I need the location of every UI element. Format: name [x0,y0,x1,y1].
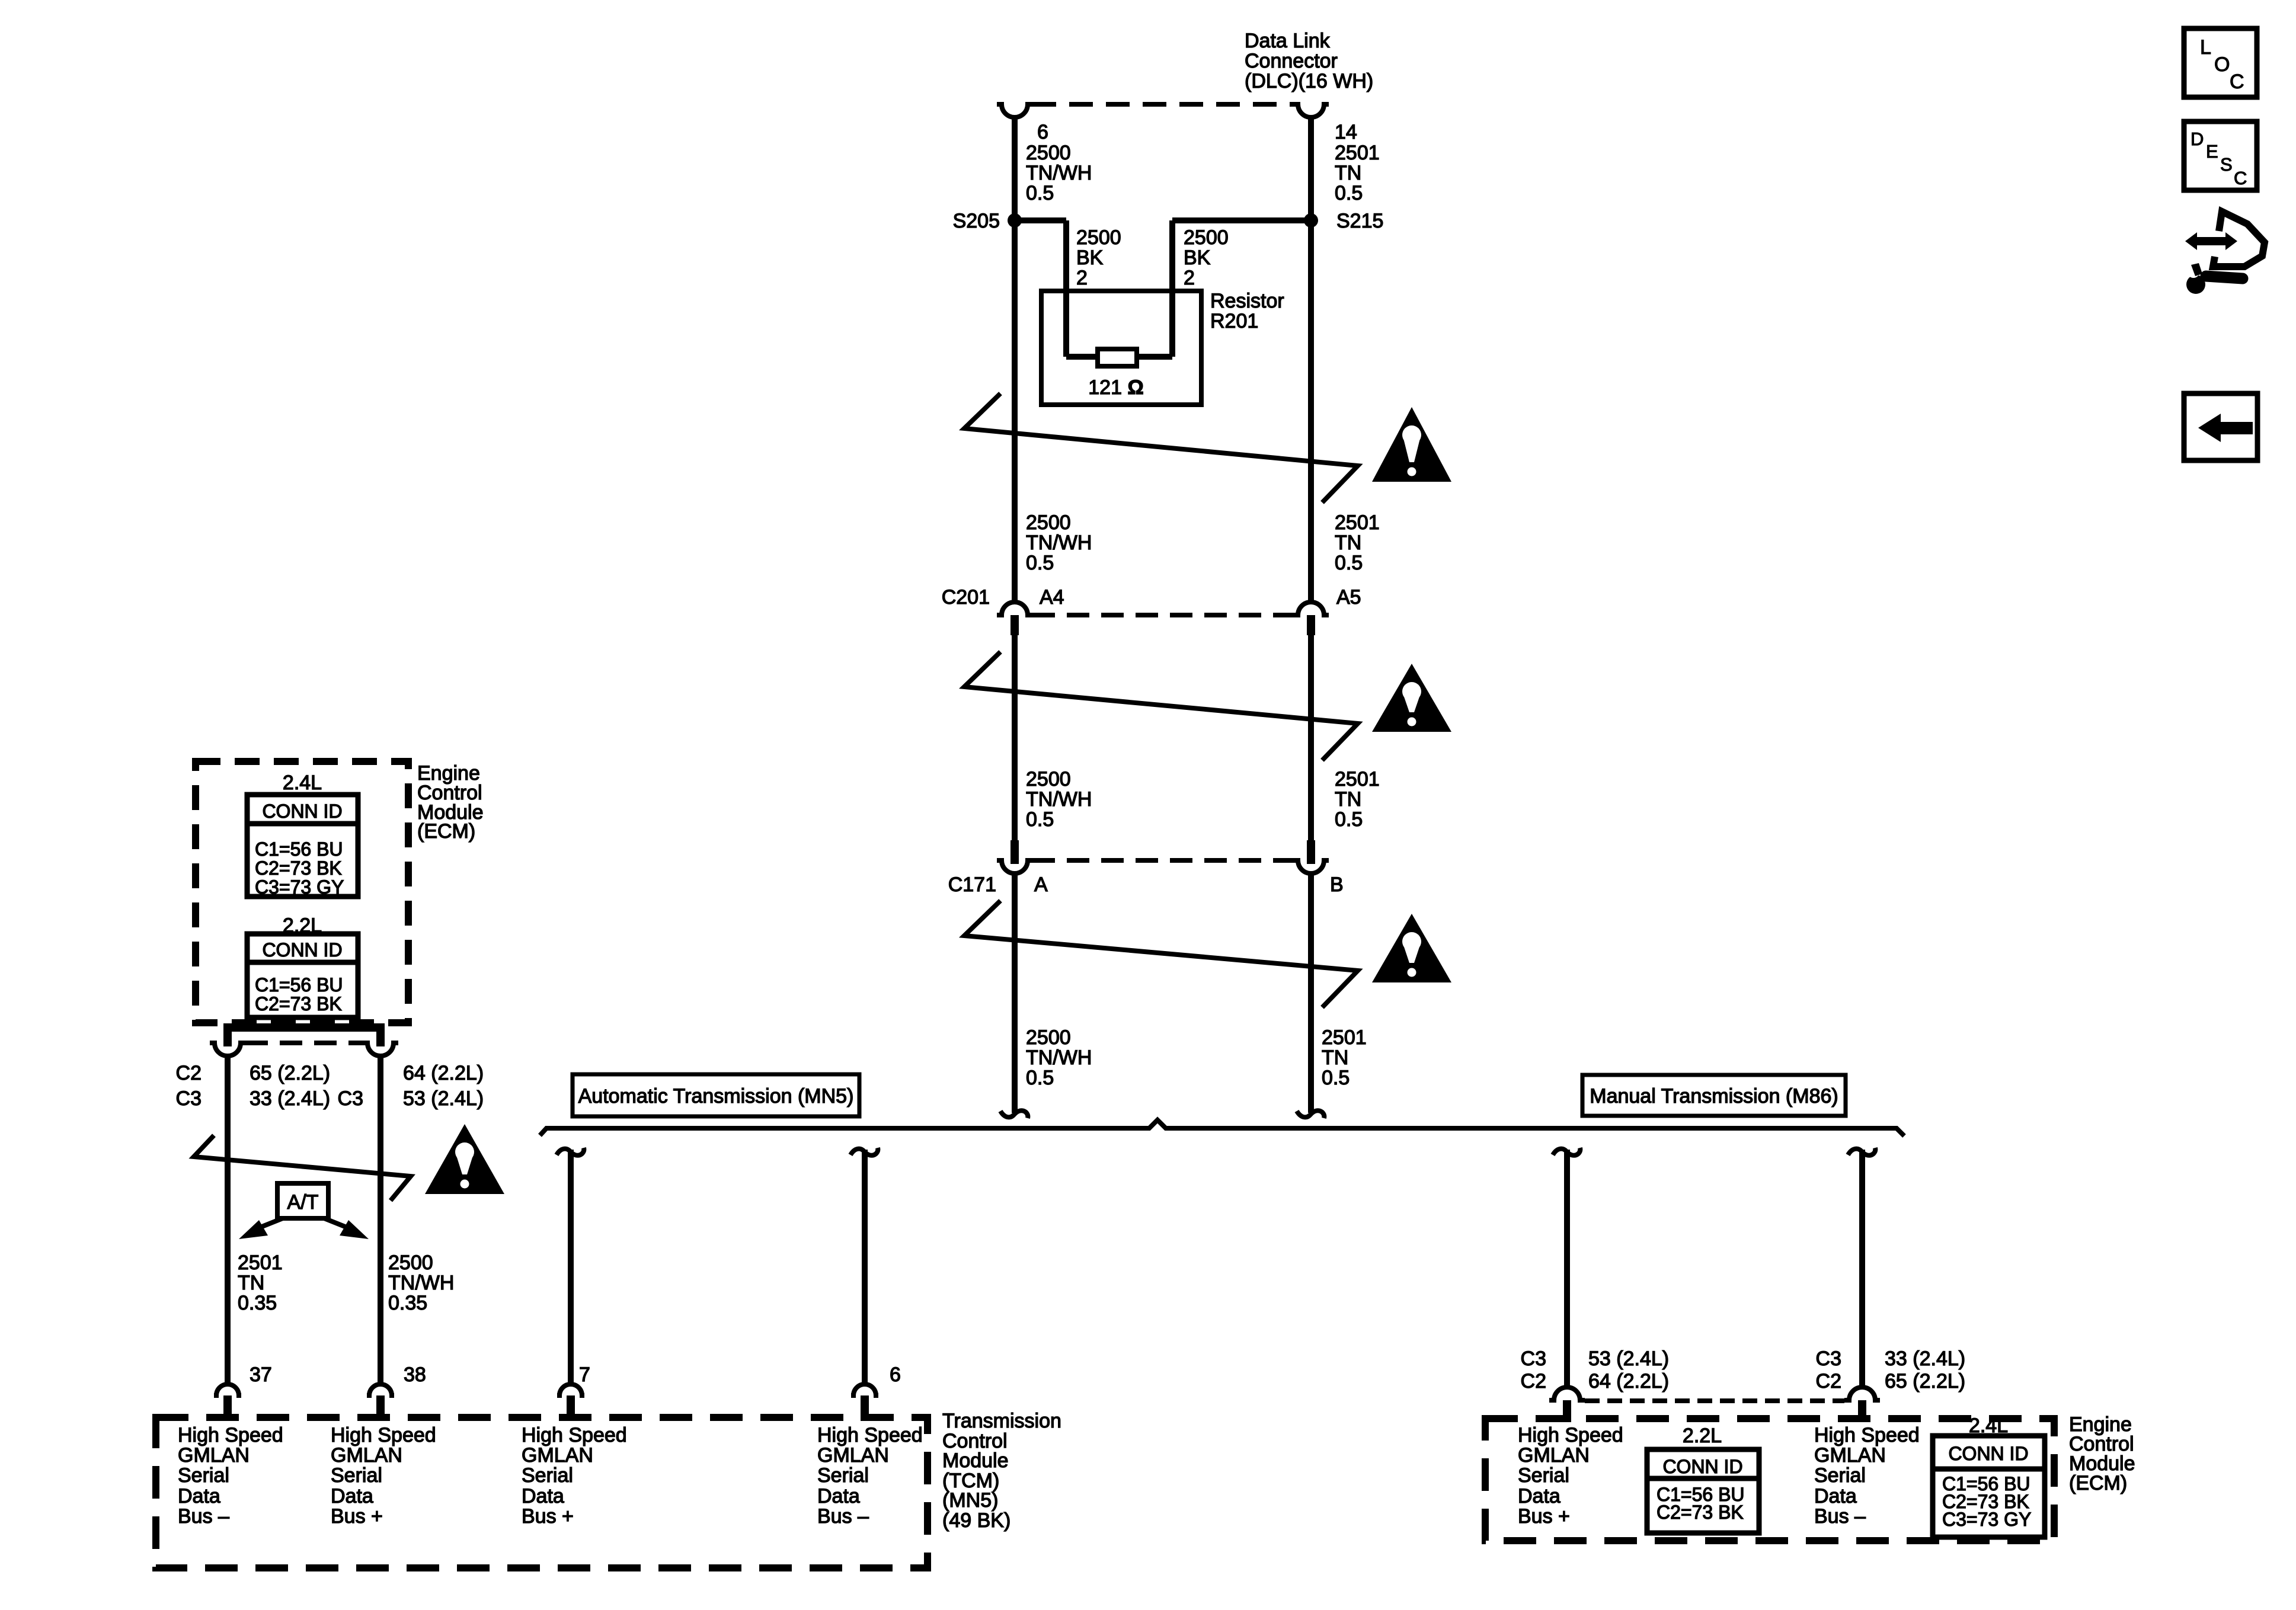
svg-text:64 (2.2L): 64 (2.2L) [1588,1370,1669,1393]
svg-text:C1=56 BU: C1=56 BU [255,974,343,996]
svg-text:Serial: Serial [1518,1464,1569,1487]
wire end squiggle right DLC wire [1297,1110,1324,1118]
svg-text:A: A [1034,873,1048,896]
wire staple below left ECM [228,1028,380,1046]
svg-text:S205: S205 [953,210,1000,232]
off-page zigzag 2 [964,652,1358,760]
svg-text:33 (2.4L): 33 (2.4L) [250,1087,330,1110]
svg-text:0.5: 0.5 [1322,1067,1350,1089]
svg-text:0.5: 0.5 [1026,552,1054,574]
svg-text:Bus +: Bus + [331,1505,383,1528]
svg-text:CONN ID: CONN ID [262,939,342,961]
svg-text:Bus –: Bus – [1814,1505,1866,1528]
connector right ECM pin right (dome) [1844,1387,1880,1400]
wire 2501 TN segment S215 to C201 [1308,220,1314,602]
connector C171 dashed body line [1032,858,1293,863]
svg-text:C: C [2230,71,2244,93]
connector TCM pin 6 (dome) [851,1384,878,1395]
svg-text:0.5: 0.5 [1335,182,1363,204]
svg-text:C2: C2 [1816,1370,1841,1393]
svg-text:37: 37 [250,1363,272,1386]
svg-text:BK: BK [1184,247,1211,269]
svg-text:TN/WH: TN/WH [1026,1046,1092,1069]
icon back arrow box [2184,393,2257,460]
connector left ECM pin C2/C3 (cup) [210,1043,245,1056]
wire squiggle M86 right [1848,1148,1875,1156]
svg-text:GMLAN: GMLAN [1518,1444,1590,1467]
svg-text:38: 38 [404,1363,426,1386]
svg-text:Automatic Transmission (MN5): Automatic Transmission (MN5) [578,1085,854,1108]
svg-text:7: 7 [579,1363,590,1386]
svg-text:Serial: Serial [331,1464,382,1487]
svg-text:0.35: 0.35 [388,1292,427,1314]
svg-text:121 Ω: 121 Ω [1088,376,1143,399]
icon DESC box [2184,121,2257,190]
svg-text:C3: C3 [176,1087,202,1110]
svg-text:TN: TN [1335,162,1361,184]
bus option brace line [540,1120,1904,1136]
svg-text:2501: 2501 [1335,142,1380,164]
connector TCM pin 37 (dome) [214,1384,241,1395]
svg-text:Transmission: Transmission [942,1410,1061,1432]
connector C201 pin A5 (dome) [1293,602,1329,615]
svg-text:C3=73 GY: C3=73 GY [255,876,344,898]
svg-text:TN/WH: TN/WH [388,1272,454,1294]
svg-text:Data: Data [1518,1485,1560,1507]
connector DLC pin 14 (female cup) [1293,104,1329,117]
svg-text:(49 BK): (49 BK) [942,1509,1011,1532]
svg-text:A4: A4 [1040,586,1064,609]
svg-text:C171: C171 [948,873,996,896]
svg-text:TN: TN [1322,1046,1348,1069]
label box Automatic Transmission (MN5) [573,1074,859,1116]
module box Engine Control Module ECM (right, dashed) [1485,1419,2054,1541]
svg-text:GMLAN: GMLAN [331,1444,402,1467]
wire squiggle M86 left [1553,1148,1580,1156]
icon double arrow [2185,232,2237,250]
wire M86 left [1564,1150,1570,1387]
table CONN ID 2.4L (left ECM) [247,795,358,897]
svg-text:0.5: 0.5 [1026,1067,1054,1089]
svg-text:0.5: 0.5 [1026,182,1054,204]
connector C201 pin A4 (dome) [997,602,1032,615]
wire squiggle TCM pin 7 [557,1148,584,1156]
svg-text:2500: 2500 [1076,226,1121,249]
connector TCM pin 7 (dome) [557,1384,584,1395]
svg-text:2500: 2500 [388,1251,433,1274]
resistor R201 element [1098,349,1137,366]
svg-text:6: 6 [1037,121,1048,143]
svg-text:6: 6 [890,1363,901,1386]
svg-text:TN: TN [1335,532,1361,554]
svg-text:C2=73 BK: C2=73 BK [1657,1502,1744,1523]
wire 2501 TN segment DLC to S215 [1308,117,1314,220]
svg-text:C2: C2 [1521,1370,1546,1393]
svg-text:C: C [2234,168,2247,188]
svg-text:R201: R201 [1210,310,1258,332]
svg-text:Resistor: Resistor [1210,290,1284,312]
wire TCM pin 6 [862,1150,868,1384]
svg-text:Data Link: Data Link [1245,30,1331,52]
svg-text:B: B [1330,873,1344,896]
connector right ECM dashed line [1585,1398,1844,1403]
svg-text:TN/WH: TN/WH [1026,788,1092,811]
wire 2501 TN segment C171 to bus [1308,873,1314,1113]
svg-text:CONN ID: CONN ID [1662,1456,1742,1477]
svg-text:0.5: 0.5 [1335,552,1363,574]
svg-text:64 (2.2L): 64 (2.2L) [403,1062,484,1084]
connector DLC dashed body line [1032,102,1293,107]
svg-text:53 (2.4L): 53 (2.4L) [403,1087,484,1110]
wire branch S215 to resistor [1172,217,1311,223]
wire M86 right [1859,1150,1865,1387]
svg-text:S215: S215 [1336,210,1383,232]
A/T arrow left [256,1218,283,1229]
wire squiggle TCM pin 6 [850,1148,878,1156]
label box Manual Transmission (M86) [1582,1075,1846,1116]
svg-text:0.35: 0.35 [238,1292,277,1314]
svg-text:O: O [2214,53,2230,76]
svg-text:2500: 2500 [1184,226,1229,249]
svg-text:(ECM): (ECM) [417,820,475,843]
svg-text:C2=73 BK: C2=73 BK [255,993,342,1014]
svg-text:Serial: Serial [178,1464,229,1487]
svg-text:High Speed: High Speed [1518,1424,1623,1446]
warning triangle 4 [425,1124,504,1194]
svg-text:2501: 2501 [1335,768,1380,790]
svg-text:Data: Data [817,1485,860,1507]
connector DLC pin 6 (female cup) [997,104,1032,117]
svg-text:TN/WH: TN/WH [1026,162,1092,184]
svg-text:D: D [2191,129,2204,149]
svg-text:14: 14 [1335,121,1357,143]
table CONN ID 2.4L (right ECM) [1933,1436,2045,1537]
icon LOC box [2184,28,2257,97]
svg-text:Bus +: Bus + [1518,1505,1570,1528]
svg-text:65 (2.2L): 65 (2.2L) [1885,1370,1965,1393]
wire TCM pin 7 [568,1150,574,1384]
warning triangle 1 [1372,407,1451,482]
module box Transmission Control Module TCM (dashed) [156,1417,928,1568]
module box Engine Control Module ECM (left, dashed) [196,761,408,1023]
svg-text:E: E [2206,141,2218,162]
svg-text:GMLAN: GMLAN [1814,1444,1886,1467]
svg-text:Manual Transmission (M86): Manual Transmission (M86) [1590,1085,1838,1108]
svg-text:2500: 2500 [1026,142,1071,164]
svg-text:CONN ID: CONN ID [262,801,342,822]
svg-text:C3: C3 [1816,1347,1841,1370]
connector C171 pin A (cup) [1011,840,1019,864]
svg-text:(MN5): (MN5) [942,1489,998,1512]
svg-text:C2: C2 [176,1062,202,1084]
svg-text:S: S [2220,154,2233,175]
svg-text:33 (2.4L): 33 (2.4L) [1885,1347,1965,1370]
svg-text:Bus –: Bus – [817,1505,869,1528]
svg-text:C3: C3 [1521,1347,1546,1370]
wire 2500 TN/WH segment S205 to C201 [1012,220,1018,602]
svg-text:BK: BK [1076,247,1104,269]
resistor R201 outer box [1041,291,1201,405]
wire 2501 TN 0.35 (pin37) [225,1056,231,1384]
warning triangle 3 [1372,914,1451,982]
connector C171 pin B (cup) [1307,840,1315,864]
svg-text:2: 2 [1076,267,1088,289]
svg-text:C2=73 BK: C2=73 BK [255,857,342,879]
svg-text:GMLAN: GMLAN [178,1444,250,1467]
svg-text:Data: Data [178,1485,220,1507]
svg-text:TN/WH: TN/WH [1026,532,1092,554]
svg-text:0.5: 0.5 [1026,808,1054,831]
svg-text:2500: 2500 [1026,511,1071,534]
icon wrench [2186,275,2205,294]
svg-text:A5: A5 [1336,586,1361,609]
svg-text:GMLAN: GMLAN [522,1444,593,1467]
svg-text:High Speed: High Speed [331,1424,436,1446]
icon panel outline [2213,212,2265,267]
off-page zigzag 3 [964,901,1358,1007]
svg-text:2500: 2500 [1026,768,1071,790]
svg-text:Module: Module [942,1449,1009,1472]
svg-text:2500: 2500 [1026,1026,1071,1049]
svg-text:Connector: Connector [1245,50,1338,72]
svg-text:C201: C201 [942,586,990,609]
svg-text:2501: 2501 [1335,511,1380,534]
svg-text:Data: Data [522,1485,564,1507]
table CONN ID 2.2L (left ECM) [247,934,358,1017]
wire 2500 TN/WH segment C171 to bus [1012,873,1018,1113]
warning triangle 2 [1372,664,1451,732]
connector C201 dashed body line [1032,613,1293,617]
svg-text:(ECM): (ECM) [2069,1472,2127,1494]
wire 2501 TN segment C201 to C171 [1308,635,1314,840]
svg-text:65 (2.2L): 65 (2.2L) [250,1062,330,1084]
off-page zigzag 4 [194,1135,411,1201]
svg-text:Serial: Serial [1814,1464,1866,1487]
svg-text:TN: TN [1335,788,1361,811]
table CONN ID 2.2L (right ECM) [1647,1449,1759,1533]
off-page zigzag 1 [964,393,1358,502]
svg-text:Serial: Serial [817,1464,869,1487]
connector left ECM pin C3 (cup) [363,1043,398,1056]
wire 2500 TN/WH segment C201 to C171 [1012,635,1018,840]
A/T arrow right [324,1218,351,1229]
svg-text:Data: Data [1814,1485,1857,1507]
svg-text:2.2L: 2.2L [1683,1425,1722,1447]
svg-text:53 (2.4L): 53 (2.4L) [1588,1347,1669,1370]
connector right ECM pin left (dome) [1549,1387,1585,1400]
svg-text:TN: TN [238,1272,264,1294]
svg-text:Serial: Serial [522,1464,573,1487]
svg-text:2: 2 [1184,267,1195,289]
svg-text:2501: 2501 [238,1251,283,1274]
wire 2500 TN/WH segment DLC to S205 [1012,117,1018,220]
svg-text:2501: 2501 [1322,1026,1367,1049]
node S215 junction dot [1304,213,1318,228]
svg-text:C1=56 BU: C1=56 BU [255,838,343,860]
connector TCM pin 38 (dome) [367,1384,394,1395]
svg-text:(DLC)(16 WH): (DLC)(16 WH) [1245,70,1373,92]
wire branch S205 to resistor [1015,217,1066,223]
svg-text:High Speed: High Speed [817,1424,923,1446]
svg-text:C3: C3 [338,1087,363,1110]
A/T option box [277,1183,328,1218]
svg-text:C3=73 GY: C3=73 GY [1942,1509,2031,1530]
svg-text:A/T: A/T [287,1191,319,1214]
svg-text:High Speed: High Speed [522,1424,627,1446]
wire end squiggle left DLC wire [1000,1110,1028,1118]
wire 2500 TN/WH 0.35 (pin38) [378,1056,383,1384]
svg-text:CONN ID: CONN ID [1948,1443,2028,1464]
svg-text:High Speed: High Speed [1814,1424,1920,1446]
connector left ECM dashed line [245,1041,363,1045]
svg-text:L: L [2200,36,2211,59]
node S205 junction dot [1008,213,1022,228]
svg-text:Bus +: Bus + [522,1505,574,1528]
svg-text:0.5: 0.5 [1335,808,1363,831]
svg-text:2.4L: 2.4L [283,772,322,794]
svg-text:Data: Data [331,1485,373,1507]
svg-text:High Speed: High Speed [178,1424,283,1446]
svg-text:Bus –: Bus – [178,1505,229,1528]
svg-text:GMLAN: GMLAN [817,1444,889,1467]
